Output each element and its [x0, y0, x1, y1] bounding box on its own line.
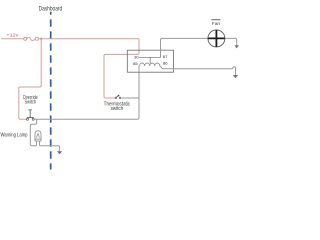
svg-text:87: 87 [163, 55, 168, 59]
svg-text:switch: switch [111, 106, 124, 112]
warning lamp LP1 [35, 131, 41, 146]
wire override switch feed (red) [19, 39, 41, 119]
relay coil 85-86 [140, 63, 163, 69]
fuse F1 [24, 37, 39, 40]
wire rail down to relay pin 30 and across to thermostatic feed [104, 39, 139, 98]
thermostatic switch TS1 [115, 95, 121, 99]
wire relay pin 86 to ground [163, 67, 236, 75]
override switch S1 [27, 110, 35, 120]
wire +12v main rail [38, 38, 139, 40]
relay K1 box [127, 50, 173, 72]
relay armature tick [149, 57, 151, 63]
fan label overline [211, 19, 220, 21]
svg-text:30: 30 [134, 56, 139, 60]
ground arrow (relay coil) [233, 75, 238, 78]
svg-text:86: 86 [163, 62, 168, 66]
ground arrow (fan) [235, 45, 239, 48]
wire +12v feed to fuse [1, 38, 24, 40]
ground arrow (lamp) [57, 151, 62, 154]
svg-text:Dashboard: Dashboard [39, 6, 63, 12]
wire relay pin 87 up and across to fan [161, 38, 208, 57]
dashboard boundary dashed line [50, 12, 52, 170]
svg-text:Fan: Fan [212, 21, 220, 27]
motor M1 fan symbol [208, 30, 225, 47]
wire warning lamp branch [30, 119, 36, 146]
svg-text:Switch: Switch [25, 100, 37, 106]
wire thermostatic switch output to relay pin 85 [121, 97, 139, 99]
wire override switch output to relay pin 85 (bottom run) [34, 118, 139, 120]
wire relay coil 85 down [138, 66, 140, 118]
junction dot at rail branch [40, 38, 42, 40]
relay contact 30-87 [139, 56, 161, 58]
svg-text:85: 85 [133, 62, 138, 66]
wire fan to ground [225, 38, 237, 45]
svg-text:Warning Lamp: Warning Lamp [1, 133, 28, 139]
svg-text:+12v: +12v [6, 32, 19, 37]
wire lamp to ground [40, 146, 60, 152]
